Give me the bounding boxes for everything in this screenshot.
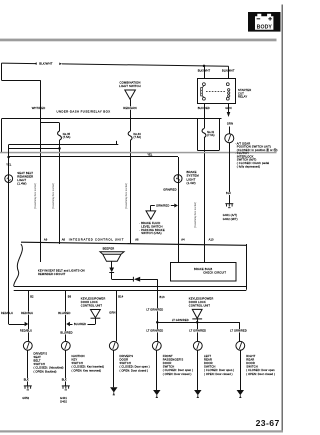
svg-text:BLU/RED: BLU/RED — [74, 322, 86, 326]
wire horizontal to diode 2 — [112, 279, 134, 281]
svg-text:· PARKING BRAKE: · PARKING BRAKE — [139, 228, 165, 232]
wire B13 LT GRN/RED down — [157, 296, 159, 341]
wire GRN to A/T switch — [229, 127, 231, 134]
svg-text:GRN: GRN — [227, 122, 233, 126]
arrow junction into B2 wire — [25, 322, 29, 326]
svg-text:BLK/WHT: BLK/WHT — [222, 69, 235, 73]
svg-text:RIGHT: RIGHT — [246, 354, 255, 358]
wire WHT/RED to fuse 35 — [41, 122, 60, 124]
ICU top edge — [21, 242, 246, 245]
lamp SEAT BELT REMINDER LIGHT — [5, 175, 13, 183]
svg-text:(CLOSED: in position Ⓡ or Ⓝ): (CLOSED: in position Ⓡ or Ⓝ) — [237, 148, 278, 152]
svg-text:(1.4W): (1.4W) — [17, 182, 26, 186]
arrow junction into A4 wire — [174, 204, 178, 208]
svg-text:G402 (M/T): G402 (M/T) — [223, 217, 238, 221]
svg-text:RED/BLU: RED/BLU — [1, 311, 13, 315]
wire down to brake fluid switch — [150, 205, 152, 211]
svg-text:( CLOSED: Door open ): ( CLOSED: Door open ) — [120, 365, 150, 369]
svg-text:KEYLESS/POWER: KEYLESS/POWER — [81, 297, 106, 301]
svg-text:B13: B13 — [160, 295, 165, 299]
svg-text:( CLOSED: Door open ): ( CLOSED: Door open ) — [163, 368, 193, 372]
svg-text:CONTROL UNIT: CONTROL UNIT — [189, 303, 211, 307]
brake bulb check circuit box — [171, 263, 237, 282]
svg-text:SWITCH: SWITCH — [72, 361, 84, 365]
relay coil — [203, 83, 206, 86]
brake fluid level switch symbol — [146, 211, 156, 219]
svg-text:SEAT: SEAT — [34, 355, 42, 359]
diode (beeper branch) — [109, 268, 114, 273]
svg-text:( OPEN: Door closed ): ( OPEN: Door closed ) — [120, 368, 149, 372]
svg-text:LEFT: LEFT — [204, 354, 211, 358]
svg-text:SWITCH: SWITCH — [120, 361, 132, 365]
svg-text:DOOR: DOOR — [204, 361, 213, 365]
svg-text:KEYLESS/POWER: KEYLESS/POWER — [189, 297, 214, 301]
label RED/BLU right — [22, 312, 33, 315]
svg-text:LT GRN/RED: LT GRN/RED — [230, 329, 247, 333]
wire relay right pin up — [228, 66, 230, 78]
svg-text:( CLOSED: Door open ): ( CLOSED: Door open ) — [204, 368, 234, 372]
svg-text:BRAKE BULB: BRAKE BULB — [194, 267, 212, 271]
label BLK — [226, 192, 231, 195]
wire to body ground 2 — [156, 350, 158, 390]
wire fuse35 to left riser — [9, 148, 60, 150]
svg-text:A6: A6 — [135, 238, 139, 242]
switch DRIVER'S SEAT BELT SWITCH — [23, 341, 32, 350]
ICU right edge — [246, 244, 248, 290]
svg-text:(7.5A): (7.5A) — [63, 136, 71, 139]
label BLK 1 — [24, 378, 29, 381]
svg-text:RED/BLU: RED/BLU — [20, 329, 32, 333]
svg-text:( CLOSED: Clutch pedal: ( CLOSED: Clutch pedal — [237, 161, 270, 165]
label RED/BLU lower — [21, 329, 32, 332]
diode keyless 1 — [91, 310, 101, 318]
svg-text:SWITCH: SWITCH — [34, 362, 46, 366]
svg-text:UNDER-DASH FUSE/RELAY BOX: UNDER-DASH FUSE/RELAY BOX — [57, 109, 111, 113]
junction fuse35 — [58, 147, 61, 150]
svg-text:G402: G402 — [60, 400, 67, 404]
svg-text:INTEGRATED CONTROL UNIT: INTEGRATED CONTROL UNIT — [69, 237, 124, 241]
wire WHT/RED horizontal — [2, 80, 41, 82]
label GRN driver door — [111, 311, 116, 314]
wire corner down at left edge — [1, 63, 3, 80]
wire GRN/RED branch left part — [151, 205, 155, 207]
svg-text:DOOR: DOOR — [120, 357, 129, 361]
svg-text:( CLOSED: Key inserted): ( CLOSED: Key inserted) — [72, 365, 105, 369]
junction bus 1 — [156, 321, 159, 324]
label BLU/RED lower — [61, 331, 72, 334]
wire seat belt light joins B2 — [9, 324, 25, 326]
junction bus 2 — [196, 321, 199, 324]
switch A/T gear position / clutch interlock — [225, 134, 234, 143]
wire jog left part — [70, 324, 73, 326]
svg-text:BLK/RED: BLK/RED — [198, 106, 210, 110]
svg-text:SWITCH: SWITCH — [246, 364, 258, 368]
svg-text:SWITCH: SWITCH — [204, 364, 216, 368]
svg-text:( OPEN: Door closed ): ( OPEN: Door closed ) — [163, 372, 192, 376]
svg-text:B14: B14 — [118, 294, 123, 298]
wire RED/GRN — [130, 99, 132, 119]
wire fuse 31 to ICU A10 — [204, 150, 206, 244]
svg-text:( fully depressed): ( fully depressed) — [237, 164, 260, 168]
lamp BRAKE SYSTEM LIGHT — [174, 175, 182, 183]
wire A10 inside ICU — [204, 244, 206, 262]
svg-text:DRIVER'S: DRIVER'S — [34, 351, 48, 355]
fuse No.31 — [204, 119, 206, 129]
wire to body ground 4 — [240, 350, 242, 390]
svg-text:(7.5A): (7.5A) — [134, 136, 142, 139]
fuse No.30 — [130, 119, 132, 132]
svg-text:A8: A8 — [62, 238, 66, 242]
label BLK 2 — [62, 378, 67, 381]
beeper symbol — [100, 252, 124, 261]
relay dashed link — [206, 91, 226, 93]
svg-text:( OPEN: Buckled): ( OPEN: Buckled) — [34, 369, 57, 373]
svg-text:KEY: KEY — [72, 357, 78, 361]
wire GRN from relay — [228, 104, 230, 112]
svg-text:LEVEL SWITCH: LEVEL SWITCH — [141, 224, 162, 228]
svg-text:DOOR: DOOR — [246, 361, 255, 365]
wire diode 2 down — [197, 319, 199, 322]
wire bus corner to right rear switch — [239, 322, 241, 341]
body ground left rear door — [194, 390, 201, 395]
svg-text:BODY: BODY — [257, 24, 273, 30]
svg-text:( CLOSED: Door open: ( CLOSED: Door open — [246, 368, 275, 372]
ground G401 G402 bottom — [62, 385, 70, 387]
svg-text:LIGHT SWITCH: LIGHT SWITCH — [119, 84, 141, 88]
BODY battery icon box (top right) — [248, 12, 281, 32]
wire B8 BLU/RED down — [65, 290, 67, 341]
svg-text:PASSENGER'S: PASSENGER'S — [163, 357, 184, 361]
svg-text:CHECK CIRCUIT: CHECK CIRCUIT — [203, 271, 226, 275]
wire BLK to ground — [229, 143, 231, 204]
wire YEL down to brake system light — [178, 157, 180, 183]
ICU bottom edge upper — [14, 286, 247, 288]
wire to body ground 3 — [197, 350, 199, 390]
svg-text:( OPEN: Key removed): ( OPEN: Key removed) — [72, 368, 102, 372]
wire beeper down — [111, 261, 113, 267]
page divider gray band (middle) — [0, 152, 277, 154]
svg-text:SWITCH (USA): SWITCH (USA) — [141, 231, 161, 235]
wire A9 inside ICU — [40, 244, 42, 262]
svg-text:A9: A9 — [44, 238, 48, 242]
page border (right) — [281, 5, 283, 432]
svg-text:(Fuse/relay box socket): (Fuse/relay box socket) — [52, 183, 55, 209]
svg-text:BLK/WHT: BLK/WHT — [39, 62, 53, 66]
svg-text:RELAY: RELAY — [238, 95, 247, 99]
svg-text:· BRAKE FLUID: · BRAKE FLUID — [139, 221, 160, 225]
svg-text:G401 (A/T): G401 (A/T) — [223, 213, 237, 217]
svg-text:GRN/RED: GRN/RED — [163, 187, 176, 191]
wire BLK/WHT main feed — [34, 62, 37, 65]
wire to body ground 1 — [113, 350, 115, 387]
svg-text:LT GRN/RED: LT GRN/RED — [146, 329, 163, 333]
svg-text:CONTROL UNIT: CONTROL UNIT — [81, 303, 103, 307]
combination light switch symbol — [125, 90, 136, 99]
svg-text:DOOR: DOOR — [163, 361, 172, 365]
wire B2 RED/BLU down — [28, 290, 30, 341]
switch LEFT REAR DOOR SWITCH — [193, 341, 202, 350]
svg-text:KEY-IN/SEAT BELT and LIGHTS-ON: KEY-IN/SEAT BELT and LIGHTS-ON — [38, 269, 85, 273]
svg-text:BLK: BLK — [226, 192, 231, 195]
wire to left rear switch — [197, 322, 199, 341]
wire B13 down through ICU edge — [157, 279, 159, 296]
svg-text:BLK: BLK — [62, 379, 67, 382]
svg-text:GRN: GRN — [225, 106, 231, 110]
svg-text:DOOR LOCK: DOOR LOCK — [81, 300, 98, 304]
wire BLK to G552 — [27, 350, 29, 386]
svg-text:B2: B2 — [30, 294, 34, 298]
svg-text:FRONT: FRONT — [163, 354, 173, 358]
svg-text:REMINDER CIRCUIT: REMINDER CIRCUIT — [38, 272, 66, 276]
wire jog right part — [88, 324, 96, 326]
wire relay left pin up — [204, 66, 206, 79]
ICU bottom edge lower — [14, 290, 247, 292]
junction YEL left riser — [7, 156, 10, 159]
page divider gray band (top) — [0, 39, 277, 42]
wire GRN/RED branch right part — [171, 205, 175, 207]
svg-text:WHT/RED: WHT/RED — [32, 106, 46, 110]
body ground driver door — [110, 387, 117, 392]
svg-text:BEEPER: BEEPER — [103, 247, 115, 251]
svg-text:G401: G401 — [60, 396, 67, 400]
svg-text:BLU/RED: BLU/RED — [60, 331, 72, 335]
diode keyless 2 — [192, 309, 202, 318]
switch IGNITION KEY SWITCH — [61, 341, 70, 350]
wire diode down — [111, 273, 113, 280]
ground G401/G402 — [225, 203, 233, 205]
svg-text:(Fuse/relay box socket): (Fuse/relay box socket) — [34, 183, 37, 209]
svg-text:(Fuse/relay box socket): (Fuse/relay box socket) — [194, 202, 197, 228]
wire LT GRN/RED bus — [157, 322, 240, 324]
svg-text:A10: A10 — [209, 238, 214, 242]
arrow continuation GRN — [227, 112, 231, 117]
svg-text:B8: B8 — [68, 294, 72, 298]
wire BLK to G401/G402 — [65, 350, 67, 386]
wire horizontal bus upper — [9, 144, 119, 146]
svg-text:( OPEN: Door closed ): ( OPEN: Door closed ) — [204, 372, 233, 376]
fuse box top edge — [2, 118, 222, 120]
svg-text:(7.5A): (7.5A) — [207, 134, 214, 137]
wire to B13 corner — [140, 279, 157, 281]
svg-text:REAR: REAR — [246, 357, 254, 361]
svg-text:YEL: YEL — [6, 164, 12, 167]
svg-text:IGNITION: IGNITION — [72, 354, 85, 358]
svg-text:(1.4W): (1.4W) — [187, 181, 196, 185]
svg-text:DOOR LOCK: DOOR LOCK — [189, 300, 206, 304]
svg-text:LT GRN/RED: LT GRN/RED — [189, 329, 206, 333]
label GRN/RED vertical wire — [166, 188, 177, 191]
svg-text:( CLOSED: Unbuckled): ( CLOSED: Unbuckled) — [34, 366, 64, 370]
svg-text:A4: A4 — [181, 238, 185, 242]
fuse box left edge — [1, 119, 3, 153]
svg-text:G552: G552 — [22, 396, 29, 400]
svg-text:RED/BLU: RED/BLU — [21, 311, 33, 315]
fuse No.35 — [59, 123, 61, 131]
svg-text:BELT: BELT — [34, 358, 41, 362]
label LT GRN/RED B13 — [147, 308, 163, 311]
label BLU/RED upper — [59, 312, 70, 315]
svg-text:RED/GRN: RED/GRN — [123, 106, 136, 110]
svg-text:BLK/WHT: BLK/WHT — [198, 69, 211, 73]
page divider gray band (bottom) — [0, 430, 283, 432]
body ground right rear door — [237, 390, 244, 395]
label BLU/RED jog — [75, 323, 86, 326]
wire GRN/RED to ICU A4 — [178, 183, 180, 244]
svg-text:23-67: 23-67 — [256, 418, 280, 428]
svg-text:DRIVER'S: DRIVER'S — [120, 354, 134, 358]
label LT GRN/RED fp — [147, 329, 163, 332]
label RED/GRN — [124, 106, 135, 109]
label LT GRN/RED bus — [173, 319, 189, 322]
svg-text:LT GRN/RED: LT GRN/RED — [146, 308, 163, 312]
wire B9 GRN down — [116, 290, 118, 341]
wire WHT/RED vertical to ICU A9 — [40, 80, 42, 244]
ground G552 — [24, 385, 32, 387]
svg-text:YEL: YEL — [147, 154, 153, 157]
diode (door switch branch, pointing left) — [132, 277, 134, 282]
arrow junction into B8 wire — [66, 322, 70, 326]
svg-text:BLU/RED: BLU/RED — [58, 311, 70, 315]
relay contact — [226, 83, 229, 86]
svg-text:SWITCH: SWITCH — [163, 364, 175, 368]
svg-text:LT GRN/RED: LT GRN/RED — [172, 318, 189, 322]
wire stub — [116, 141, 118, 145]
relay box starter cut relay — [198, 79, 236, 104]
svg-text:GRN/RED: GRN/RED — [156, 203, 169, 207]
junction BLK/WHT to relay pin — [203, 65, 206, 68]
switch FRONT PASSENGER'S DOOR SWITCH — [152, 341, 161, 350]
wire diode 1 down — [95, 318, 97, 324]
switch DRIVER'S DOOR SWITCH — [109, 341, 118, 350]
svg-text:REAR: REAR — [204, 357, 212, 361]
label LT GRN/RED rr — [231, 329, 247, 332]
wire YEL horizontal — [9, 156, 178, 158]
svg-text:SWITCH (M/T): SWITCH (M/T) — [237, 157, 257, 161]
svg-text:(Fuse/relay box socket): (Fuse/relay box socket) — [125, 183, 128, 209]
label LT GRN/RED lr — [190, 329, 206, 332]
wire BLK/RED relay to fuse box — [204, 104, 206, 119]
wire left riser YEL / RED-BLU down left side — [8, 145, 10, 324]
body ground front passenger door — [153, 390, 160, 395]
fuse No.31 sub-box — [197, 119, 199, 150]
switch RIGHT REAR DOOR SWITCH — [236, 341, 245, 350]
wire A4 inside ICU — [178, 244, 180, 262]
svg-text:GRN: GRN — [109, 311, 115, 315]
svg-text:( OPEN: Door closed ): ( OPEN: Door closed ) — [246, 372, 275, 376]
svg-text:BLK: BLK — [24, 379, 29, 382]
